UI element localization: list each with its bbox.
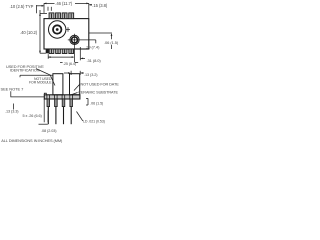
svg-text:CERAMIC SUBSTRATE: CERAMIC SUBSTRATE	[78, 90, 118, 94]
svg-text:.06 (1.5): .06 (1.5)	[90, 102, 103, 106]
svg-text:NOT USED FOR DATE: NOT USED FOR DATE	[81, 83, 120, 87]
svg-text:.46 (11.7): .46 (11.7)	[55, 1, 72, 6]
svg-text:.25 (6.4): .25 (6.4)	[63, 62, 76, 66]
svg-text:.13 (3.2): .13 (3.2)	[84, 73, 98, 77]
svg-text:SEE NOTE 7: SEE NOTE 7	[1, 87, 25, 92]
svg-text:IDENTIFICATION: IDENTIFICATION	[10, 68, 40, 73]
svg-text:.10 (2.5) TYP: .10 (2.5) TYP	[10, 4, 34, 9]
svg-text:ALL DIMENSIONS IN INCHES (MM): ALL DIMENSIONS IN INCHES (MM)	[1, 138, 63, 143]
svg-text:.31 (8.0): .31 (8.0)	[87, 58, 102, 63]
svg-text:FOR MODULE: FOR MODULE	[29, 80, 52, 84]
svg-text:5 x .26 (6.6): 5 x .26 (6.6)	[23, 114, 43, 118]
svg-text:.40 (10.2): .40 (10.2)	[20, 30, 38, 35]
svg-text:.13 (3.3): .13 (3.3)	[5, 110, 19, 114]
svg-text:.08 (2.03): .08 (2.03)	[41, 129, 57, 133]
svg-text:LD .021 (0.53): LD .021 (0.53)	[83, 119, 105, 123]
svg-text:.15 (3.8): .15 (3.8)	[92, 3, 108, 8]
svg-text:29 (7.4): 29 (7.4)	[86, 44, 100, 49]
svg-text:.06 (1.5): .06 (1.5)	[104, 40, 119, 45]
